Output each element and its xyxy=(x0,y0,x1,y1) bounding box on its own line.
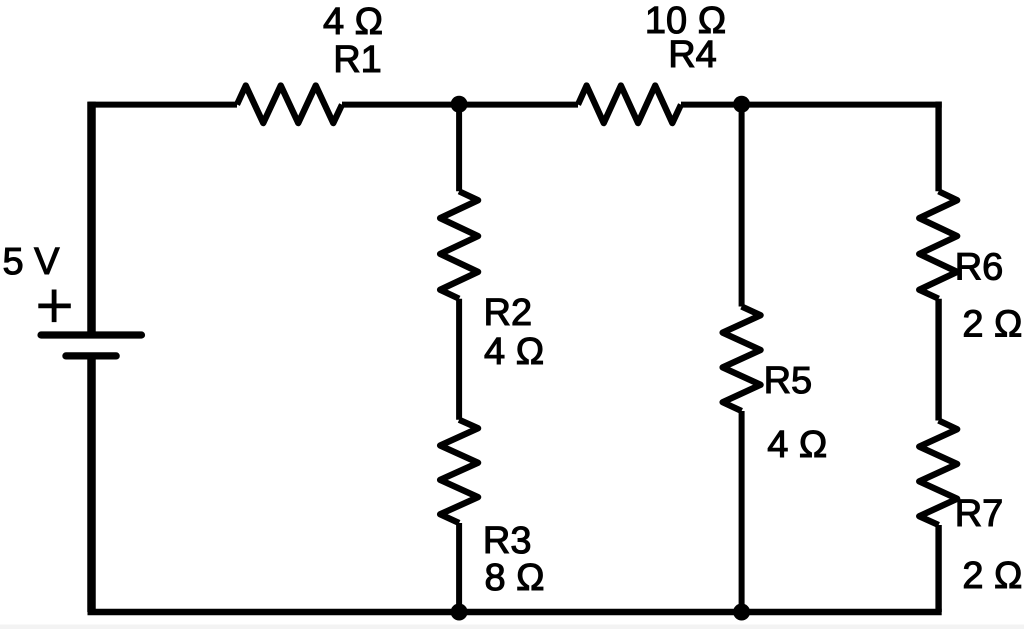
wire branch2 upper segment xyxy=(739,105,745,307)
reference label R5 xyxy=(764,360,813,402)
node B junction dot xyxy=(733,96,750,113)
svg-text:R1: R1 xyxy=(333,39,382,81)
svg-text:4 Ω: 4 Ω xyxy=(767,424,827,466)
node C junction dot (branch1 bottom) xyxy=(451,604,468,621)
reference label R2 xyxy=(484,292,533,334)
value label 2 Ω for R7 xyxy=(962,555,1022,597)
value label 2 Ω for R6 xyxy=(962,304,1022,346)
wire branch1 middle segment xyxy=(456,299,462,420)
value label 8 Ω for R3 xyxy=(484,557,544,599)
reference label R7 xyxy=(955,493,1004,535)
value label 5 V for battery xyxy=(2,241,60,283)
battery V1 negative plate xyxy=(66,352,116,359)
value label 10 Ω for R4 xyxy=(645,0,726,42)
resistor R4 xyxy=(578,86,681,124)
wire branch1 upper segment xyxy=(456,105,462,192)
reference label R4 xyxy=(668,34,717,76)
battery plus sign xyxy=(38,290,71,323)
value label 4 Ω for R5 xyxy=(767,424,827,466)
reference label R6 xyxy=(955,247,1004,289)
wire top-left segment xyxy=(88,102,237,108)
svg-text:R2: R2 xyxy=(484,292,533,334)
wire right lower segment xyxy=(935,525,941,612)
svg-text:R6: R6 xyxy=(955,247,1004,289)
svg-text:2 Ω: 2 Ω xyxy=(962,304,1022,346)
wire left lower segment (battery negative lead) xyxy=(87,356,96,612)
reference label R1 xyxy=(333,39,382,81)
resistor R7 xyxy=(919,421,957,526)
svg-text:8 Ω: 8 Ω xyxy=(484,557,544,599)
wire branch2 lower segment xyxy=(739,411,745,612)
svg-text:4 Ω: 4 Ω xyxy=(323,1,383,43)
wire bottom segment xyxy=(88,609,942,616)
value label 4 Ω for R1 xyxy=(323,1,383,43)
svg-text:R4: R4 xyxy=(668,34,717,76)
svg-text:R3: R3 xyxy=(483,520,532,562)
wire top-right segment xyxy=(681,102,942,108)
wire top-middle segment xyxy=(342,102,578,108)
resistor R1 xyxy=(237,86,342,124)
resistor R5 xyxy=(723,307,761,412)
value label 4 Ω for R2 xyxy=(484,331,544,373)
svg-text:R5: R5 xyxy=(764,360,813,402)
resistor R6 xyxy=(919,191,957,298)
svg-text:2 Ω: 2 Ω xyxy=(962,555,1022,597)
svg-text:5 V: 5 V xyxy=(2,241,60,283)
node D junction dot (branch2 bottom) xyxy=(733,604,750,621)
svg-text:4 Ω: 4 Ω xyxy=(484,331,544,373)
battery V1 positive plate xyxy=(41,331,142,338)
resistor R2 xyxy=(440,191,478,298)
wire branch1 lower segment xyxy=(456,523,462,612)
wire right middle segment xyxy=(935,299,941,421)
wire left upper segment (battery positive lead) xyxy=(87,102,96,335)
resistor R3 xyxy=(440,420,478,523)
reference label R3 xyxy=(483,520,532,562)
svg-text:R7: R7 xyxy=(955,493,1004,535)
node A junction dot xyxy=(451,96,468,113)
bottom window edge strip xyxy=(0,625,1024,630)
wire right upper segment xyxy=(935,102,941,192)
